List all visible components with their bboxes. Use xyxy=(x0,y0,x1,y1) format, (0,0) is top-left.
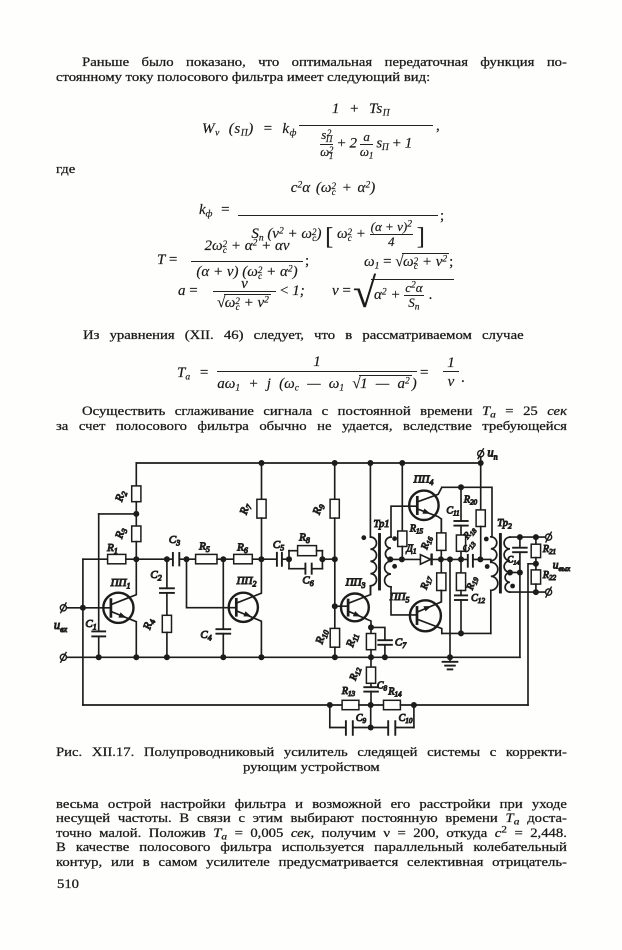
svg-text:C14: C14 xyxy=(507,555,520,567)
svg-text:R2: R2 xyxy=(113,489,129,504)
svg-text:R4: R4 xyxy=(141,617,157,632)
svg-text:R14: R14 xyxy=(387,687,402,699)
svg-text:R7: R7 xyxy=(237,501,254,517)
svg-text:R16: R16 xyxy=(419,534,435,552)
svg-text:R1: R1 xyxy=(106,542,118,555)
svg-text:R12: R12 xyxy=(348,665,364,683)
svg-text:R20: R20 xyxy=(463,495,478,507)
svg-text:C8: C8 xyxy=(377,681,388,693)
svg-text:uвых: uвых xyxy=(553,560,571,574)
svg-text:C5: C5 xyxy=(273,539,284,552)
svg-text:C3: C3 xyxy=(169,534,180,547)
svg-text:R3: R3 xyxy=(113,526,129,541)
svg-text:C7: C7 xyxy=(395,637,407,650)
svg-text:C10: C10 xyxy=(399,713,413,725)
svg-text:R9: R9 xyxy=(310,502,326,517)
svg-text:C9: C9 xyxy=(356,713,367,725)
svg-text:R11: R11 xyxy=(344,631,361,650)
svg-text:ПП2: ПП2 xyxy=(236,575,257,588)
svg-text:Тр2: Тр2 xyxy=(497,518,512,530)
svg-text:R5: R5 xyxy=(198,541,210,554)
svg-text:C2: C2 xyxy=(150,569,161,582)
svg-text:R13: R13 xyxy=(341,686,356,698)
svg-text:C12: C12 xyxy=(471,593,485,605)
svg-text:uп: uп xyxy=(487,446,497,462)
svg-text:C6: C6 xyxy=(302,575,313,588)
svg-text:ПП1: ПП1 xyxy=(110,577,131,590)
svg-text:C1: C1 xyxy=(85,618,96,631)
svg-text:R8: R8 xyxy=(298,532,310,545)
svg-text:ПП4: ПП4 xyxy=(413,474,434,487)
svg-text:R17: R17 xyxy=(419,574,435,592)
svg-text:Тр1: Тр1 xyxy=(373,519,389,530)
svg-text:R10: R10 xyxy=(313,628,331,647)
svg-text:C11: C11 xyxy=(446,506,459,518)
svg-text:R21: R21 xyxy=(542,544,556,556)
svg-text:ПП5: ПП5 xyxy=(389,591,410,604)
svg-text:R6: R6 xyxy=(236,542,248,555)
svg-text:ПП3: ПП3 xyxy=(345,577,366,590)
svg-text:R19: R19 xyxy=(465,575,481,593)
svg-text:Д1: Д1 xyxy=(406,544,417,556)
svg-text:R22: R22 xyxy=(542,570,557,582)
svg-text:R15: R15 xyxy=(409,524,424,536)
svg-text:C4: C4 xyxy=(200,629,211,642)
svg-text:uвх: uвх xyxy=(54,618,68,634)
